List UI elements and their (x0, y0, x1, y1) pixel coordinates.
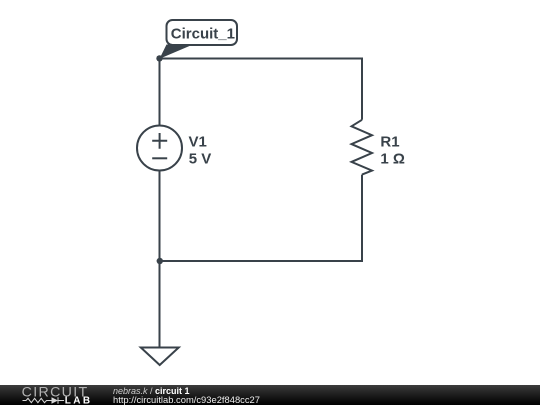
svg-text:V1: V1 (189, 133, 207, 150)
svg-text:Circuit_1: Circuit_1 (171, 26, 235, 43)
svg-text:R1: R1 (380, 133, 399, 150)
svg-text:LAB: LAB (65, 395, 93, 405)
svg-text:5 V: 5 V (189, 151, 212, 168)
svg-text:1 Ω: 1 Ω (380, 151, 405, 168)
